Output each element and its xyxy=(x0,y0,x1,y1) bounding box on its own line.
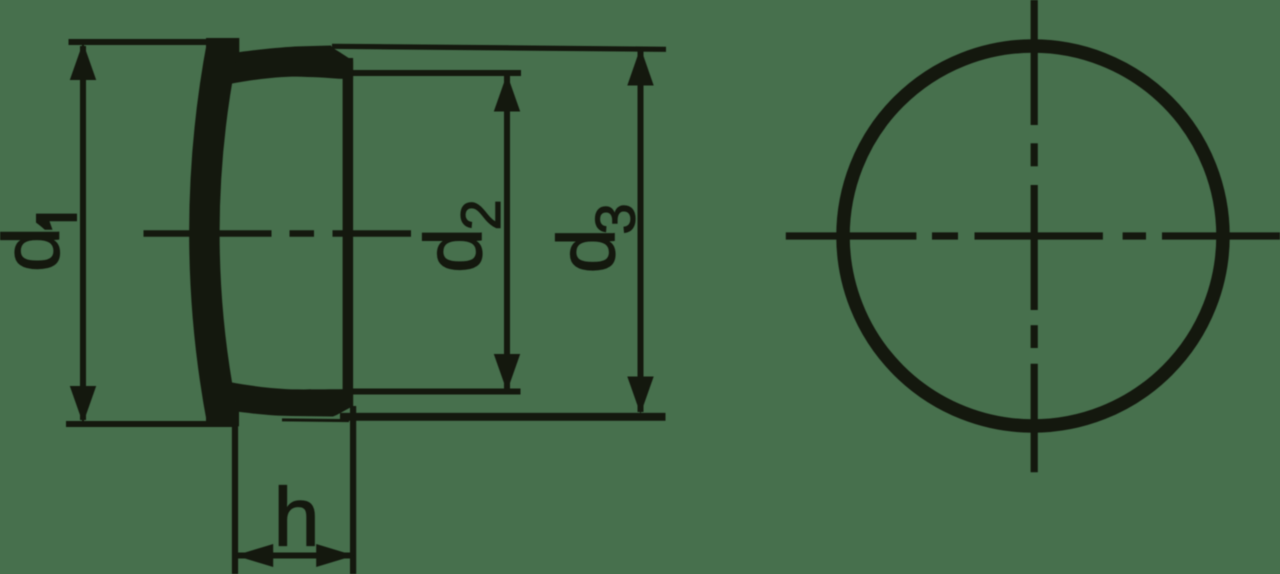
d2 extension line bottom xyxy=(352,389,521,395)
d3 arrowhead top xyxy=(627,48,653,86)
svg-text:h: h xyxy=(274,471,320,564)
h arrowhead left xyxy=(235,544,273,567)
svg-text:3: 3 xyxy=(584,203,647,234)
d3 extension line top xyxy=(332,46,666,49)
d1 arrowhead bottom xyxy=(70,386,96,424)
cap right bar xyxy=(343,58,354,406)
center line left view xyxy=(144,230,412,236)
svg-text:d: d xyxy=(409,228,499,273)
label d1 subscript 1 xyxy=(36,214,77,230)
d3 dimension line xyxy=(638,50,644,412)
vertical center line xyxy=(1031,0,1038,472)
cap bottom hairline xyxy=(282,418,349,422)
d2 extension line top xyxy=(352,70,521,76)
cap side view xyxy=(189,38,353,427)
h extension line left xyxy=(232,426,238,574)
cap rim corner bottom xyxy=(206,402,239,426)
cap top band xyxy=(230,46,354,85)
h arrowhead right xyxy=(316,544,354,567)
cap rim corner top xyxy=(206,38,239,62)
h dimension line xyxy=(237,553,353,559)
d1 extension line top xyxy=(69,39,238,45)
d2 arrowhead bottom xyxy=(494,354,520,392)
d1 dimension line xyxy=(80,46,86,420)
svg-text:2: 2 xyxy=(449,199,512,230)
cap dome outer band xyxy=(189,39,236,427)
h extension line right xyxy=(350,406,356,574)
svg-text:d: d xyxy=(0,227,77,272)
d3 extension line bottom xyxy=(340,413,666,421)
front view circle xyxy=(843,46,1223,426)
cap bottom band xyxy=(230,382,354,417)
d2 arrowhead top xyxy=(494,74,520,112)
d2 dimension line xyxy=(504,76,510,389)
horizontal center line xyxy=(786,232,1280,239)
d1 arrowhead top xyxy=(70,43,96,81)
d1 extension line bottom xyxy=(66,421,237,427)
d3 arrowhead bottom xyxy=(627,377,653,415)
